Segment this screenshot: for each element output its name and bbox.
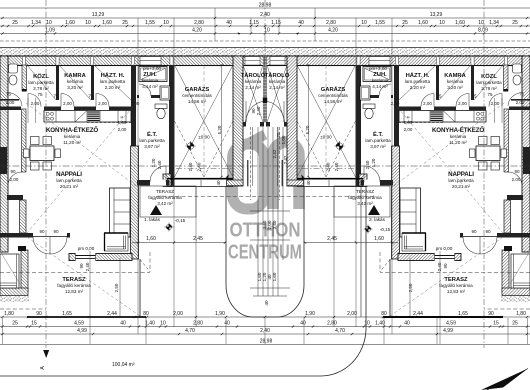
bottom ticks rowA bbox=[1, 316, 528, 318]
svg-text:4,14 m²: 4,14 m² bbox=[372, 84, 388, 89]
svg-text:2,44: 2,44 bbox=[413, 311, 423, 317]
svg-text:40: 40 bbox=[404, 321, 410, 327]
svg-text:8,09: 8,09 bbox=[478, 28, 488, 34]
fine dimension chain line bbox=[0, 25, 530, 27]
svg-text:90: 90 bbox=[36, 311, 42, 317]
passage cross ticks bbox=[250, 211, 290, 296]
svg-text:5,20: 5,20 bbox=[217, 125, 222, 134]
level marker crosses bbox=[165, 223, 174, 232]
svg-text:75: 75 bbox=[6, 92, 12, 97]
garage door lines bbox=[167, 178, 233, 180]
svg-text:15: 15 bbox=[31, 321, 37, 327]
svg-text:1,20: 1,20 bbox=[151, 158, 156, 167]
wall piece above bbox=[7, 195, 23, 200]
svg-text:1,09: 1,09 bbox=[45, 28, 55, 34]
svg-text:KONYHA-ÉTKEZŐ: KONYHA-ÉTKEZŐ bbox=[46, 126, 98, 134]
property dashed line bbox=[0, 40, 530, 42]
svg-text:10: 10 bbox=[364, 321, 370, 327]
svg-text:40: 40 bbox=[226, 20, 232, 26]
ridge dash-dot line bbox=[0, 165, 265, 167]
svg-text:4,70: 4,70 bbox=[335, 328, 345, 334]
room diagonal HAZT bbox=[94, 65, 131, 100]
svg-text:40: 40 bbox=[120, 321, 126, 327]
svg-text:KONYHA-ÉTKEZŐ: KONYHA-ÉTKEZŐ bbox=[432, 126, 484, 134]
svg-text:±0,00: ±0,00 bbox=[320, 135, 332, 140]
witness line x196 bbox=[195, 186, 197, 327]
overall width dimension line 28,98 bbox=[0, 7, 530, 9]
svg-text:1,40: 1,40 bbox=[145, 321, 155, 327]
svg-text:1,60: 1,60 bbox=[146, 236, 156, 242]
svg-text:1,00: 1,00 bbox=[281, 135, 286, 144]
svg-text:4,20: 4,20 bbox=[328, 28, 338, 34]
door arc KOZL bbox=[28, 94, 41, 107]
svg-text:pm 0,00: pm 0,00 bbox=[78, 246, 95, 251]
door arc KAMRA bbox=[61, 94, 74, 107]
svg-text:12,83 m²: 12,83 m² bbox=[65, 289, 84, 294]
svg-text:2,00: 2,00 bbox=[423, 101, 432, 106]
dishwasher diagonal bbox=[75, 111, 87, 123]
svg-text:40: 40 bbox=[216, 180, 221, 186]
wall E.T. / GARAZS bbox=[169, 65, 175, 186]
section line A dash-dot bbox=[45, 0, 47, 348]
svg-text:cementsimítás: cementsimítás bbox=[318, 93, 348, 98]
svg-text:40: 40 bbox=[264, 300, 269, 306]
garage dim line 5,20 bbox=[221, 65, 223, 177]
tick marks row3 bbox=[1, 25, 528, 27]
svg-text:75: 75 bbox=[37, 92, 43, 97]
north arrow bottom right bbox=[481, 369, 528, 390]
svg-text:2,78 m²: 2,78 m² bbox=[481, 86, 497, 91]
svg-text:1,80: 1,80 bbox=[4, 311, 14, 317]
dimension line 4,20 bbox=[0, 33, 530, 35]
toilet bbox=[155, 104, 167, 109]
svg-text:cementsimítás: cementsimítás bbox=[182, 93, 212, 98]
svg-text:1,00: 1,00 bbox=[118, 120, 127, 125]
svg-text:TERASZ: TERASZ bbox=[356, 189, 374, 194]
svg-text:pm+3,00: pm+3,00 bbox=[143, 66, 161, 71]
svg-text:NAPPALI: NAPPALI bbox=[448, 171, 474, 178]
counter front dashed bbox=[87, 122, 131, 124]
svg-text:4,99: 4,99 bbox=[443, 328, 453, 334]
svg-text:kerámia: kerámia bbox=[67, 79, 84, 84]
svg-text:TÁROLÓ: TÁROLÓ bbox=[241, 71, 266, 79]
door arc nappali left bbox=[8, 172, 22, 186]
svg-text:40: 40 bbox=[300, 321, 306, 327]
svg-text:1,65: 1,65 bbox=[62, 311, 72, 317]
svg-text:1,20: 1,20 bbox=[371, 158, 376, 167]
garage X diagonals bbox=[175, 65, 234, 177]
svg-text:2,40: 2,40 bbox=[197, 162, 202, 171]
terrace right edge line bbox=[139, 259, 141, 317]
bottom dim texts rowB bbox=[12, 321, 518, 327]
witness verticals bottom chains bbox=[3, 318, 528, 344]
svg-text:20,21 m²: 20,21 m² bbox=[60, 184, 79, 189]
svg-text:2,00: 2,00 bbox=[404, 127, 413, 132]
wall NAPPALI / E.T. upper bbox=[131, 65, 136, 146]
chairs bbox=[31, 137, 40, 145]
svg-text:2,20 m²: 2,20 m² bbox=[410, 85, 426, 90]
svg-text:90: 90 bbox=[514, 169, 520, 174]
porch side line bbox=[247, 160, 249, 186]
svg-text:1,55: 1,55 bbox=[145, 20, 155, 26]
svg-text:2,00: 2,00 bbox=[10, 177, 19, 182]
svg-text:4,59: 4,59 bbox=[446, 321, 456, 327]
svg-text:4,70: 4,70 bbox=[185, 328, 195, 334]
svg-text:kerámia: kerámia bbox=[142, 78, 159, 83]
svg-text:15: 15 bbox=[493, 321, 499, 327]
svg-text:1,60: 1,60 bbox=[374, 236, 384, 242]
svg-text:25: 25 bbox=[402, 20, 408, 26]
bedroom fragment walls bottom-left bbox=[21, 250, 28, 292]
walkway arc right bbox=[0, 186, 366, 376]
bottom dim line rowA bbox=[0, 316, 530, 318]
french door arcs bbox=[33, 237, 50, 254]
interior dim line 1,60/2,45 bbox=[132, 242, 226, 244]
wall GARAZS / TAROLO hatched bbox=[233, 56, 243, 186]
plot edge line bbox=[0, 47, 530, 49]
bottom ticks rowC bbox=[1, 333, 528, 335]
svg-text:kerámia: kerámia bbox=[64, 134, 81, 139]
svg-text:CENTRUM: CENTRUM bbox=[228, 241, 302, 264]
svg-text:2,45: 2,45 bbox=[193, 236, 203, 242]
svg-text:2,00: 2,00 bbox=[63, 101, 72, 106]
bed fragment bbox=[0, 254, 19, 288]
washbasin bbox=[160, 86, 170, 100]
svg-text:2,20 m²: 2,20 m² bbox=[105, 85, 121, 90]
left outer wall fragment bbox=[0, 56, 8, 252]
svg-text:2,40: 2,40 bbox=[85, 262, 90, 271]
svg-text:2,00: 2,00 bbox=[98, 101, 107, 106]
svg-text:10: 10 bbox=[46, 20, 52, 26]
bottom dim line rowC bbox=[0, 333, 530, 335]
door arc HAZT bbox=[96, 94, 109, 107]
svg-text:25: 25 bbox=[12, 321, 18, 327]
witness line x90 bbox=[89, 251, 91, 344]
svg-text:TERASZ: TERASZ bbox=[156, 189, 174, 194]
svg-text:75: 75 bbox=[487, 92, 493, 97]
svg-text:2,00: 2,00 bbox=[458, 101, 467, 106]
svg-text:2,14 m²: 2,14 m² bbox=[269, 85, 285, 90]
svg-text:12,83 m²: 12,83 m² bbox=[447, 289, 466, 294]
row4 arrowheads bbox=[238, 32, 241, 34]
svg-text:10: 10 bbox=[85, 20, 91, 26]
door arc toilet room bbox=[7, 93, 22, 107]
entry arrow triangle bbox=[150, 205, 162, 215]
garage door dim line bbox=[176, 168, 232, 170]
svg-text:3,42 m²: 3,42 m² bbox=[357, 201, 373, 206]
svg-text:1,34: 1,34 bbox=[31, 20, 41, 26]
svg-text:2,80: 2,80 bbox=[194, 20, 204, 26]
svg-text:É.T.: É.T. bbox=[147, 130, 157, 138]
gravel stipple band bbox=[0, 49, 530, 56]
svg-text:kerámia: kerámia bbox=[447, 79, 464, 84]
svg-text:25: 25 bbox=[512, 321, 518, 327]
interior wall KOZL/KAMRA bbox=[56, 65, 59, 100]
svg-text:lam.parketta: lam.parketta bbox=[100, 79, 126, 84]
svg-text:1,90: 1,90 bbox=[215, 311, 225, 317]
svg-text:É.T.: É.T. bbox=[373, 130, 383, 138]
dim texts row3 right bbox=[271, 20, 518, 26]
terrace roof dashed bbox=[0, 308, 46, 310]
room diagonal KOZL bbox=[27, 65, 56, 100]
svg-text:KÖZL: KÖZL bbox=[33, 73, 49, 80]
svg-text:13,29: 13,29 bbox=[430, 12, 443, 18]
dim arrowhead bbox=[226, 175, 230, 179]
svg-text:2,00: 2,00 bbox=[512, 177, 521, 182]
corner niche bench bbox=[105, 233, 129, 251]
svg-text:90: 90 bbox=[79, 263, 84, 269]
svg-text:10: 10 bbox=[361, 20, 367, 26]
svg-text:100,04 m²: 100,04 m² bbox=[112, 362, 135, 368]
garage front wall bbox=[163, 174, 171, 187]
svg-text:75: 75 bbox=[519, 92, 525, 97]
door witness lines kitchen bbox=[27, 98, 29, 123]
svg-text:1. lakás: 1. lakás bbox=[144, 217, 161, 222]
wall NAPPALI / terrace hatched lower bbox=[131, 146, 139, 259]
svg-text:2,40: 2,40 bbox=[437, 262, 442, 271]
svg-text:-0,15: -0,15 bbox=[380, 227, 391, 232]
svg-text:20,21 m²: 20,21 m² bbox=[452, 184, 471, 189]
svg-text:90: 90 bbox=[488, 311, 494, 317]
bottom dim line rowD 28,98 bbox=[0, 344, 530, 346]
svg-text:2,00: 2,00 bbox=[516, 100, 525, 105]
svg-text:1,90: 1,90 bbox=[305, 311, 315, 317]
svg-text:2,80: 2,80 bbox=[326, 20, 336, 26]
svg-text:10: 10 bbox=[163, 20, 169, 26]
witness line x138 bbox=[137, 18, 139, 334]
svg-text:28,98: 28,98 bbox=[259, 3, 272, 9]
section arrow A bbox=[43, 350, 49, 358]
svg-text:75: 75 bbox=[436, 94, 442, 99]
svg-text:4,20: 4,20 bbox=[192, 28, 202, 34]
tarolo front wall bbox=[243, 122, 264, 127]
mirrored unit geometry bbox=[264, 0, 530, 348]
svg-text:90: 90 bbox=[443, 263, 448, 269]
cooktop burners bbox=[46, 112, 49, 115]
dark cabinet left edge bbox=[0, 147, 7, 174]
svg-text:1,40: 1,40 bbox=[375, 321, 385, 327]
svg-text:1,34: 1,34 bbox=[489, 20, 499, 26]
bottom ticks rowB bbox=[1, 325, 528, 327]
svg-text:±0,00: ±0,00 bbox=[198, 135, 210, 140]
interior wall KAMRA/HAZT bbox=[91, 65, 94, 100]
svg-text:2,00: 2,00 bbox=[6, 100, 15, 105]
porch footing hatched bbox=[227, 180, 244, 186]
svg-text:2,40: 2,40 bbox=[365, 160, 370, 169]
svg-text:2,78 m²: 2,78 m² bbox=[33, 86, 49, 91]
shower tray bbox=[139, 67, 167, 82]
center party wall half bbox=[263, 56, 265, 122]
svg-text:lam.parketta: lam.parketta bbox=[365, 138, 391, 143]
tick marks row2 bbox=[1, 17, 528, 19]
svg-text:2,45: 2,45 bbox=[327, 236, 337, 242]
tarolo door arc bbox=[246, 101, 267, 122]
nappali SE wall hatched with sliding door bbox=[69, 254, 132, 261]
svg-text:2,00: 2,00 bbox=[491, 101, 500, 106]
room diagonal KAMRA bbox=[59, 65, 91, 100]
svg-text:fagyálló kerámia: fagyálló kerámia bbox=[348, 195, 382, 200]
svg-text:10: 10 bbox=[478, 20, 484, 26]
nappali dashed diagonal bbox=[26, 103, 136, 186]
bold terrace edge right bbox=[383, 316, 503, 318]
svg-text:90: 90 bbox=[10, 169, 16, 174]
svg-text:lam.parketta: lam.parketta bbox=[56, 178, 82, 183]
svg-text:KÖZL: KÖZL bbox=[481, 73, 497, 80]
eave dashed line bbox=[156, 196, 265, 198]
svg-text:2,00: 2,00 bbox=[391, 101, 400, 106]
bottom dim texts rowA bbox=[4, 311, 526, 317]
sofa bbox=[110, 188, 131, 237]
bottom dim line rowB bbox=[0, 326, 530, 328]
svg-text:40: 40 bbox=[298, 20, 304, 26]
svg-text:4,14 m²: 4,14 m² bbox=[142, 84, 158, 89]
svg-text:2,00: 2,00 bbox=[131, 101, 140, 106]
svg-text:90: 90 bbox=[39, 229, 45, 234]
svg-text:1,60: 1,60 bbox=[455, 20, 465, 26]
watermark Otthon Centrum logo OC bbox=[233, 135, 300, 210]
svg-text:2,50: 2,50 bbox=[114, 283, 119, 292]
svg-text:2,40: 2,40 bbox=[188, 162, 193, 171]
dimension line 13,29 / 2,40 bbox=[0, 17, 530, 19]
svg-text:10: 10 bbox=[160, 321, 166, 327]
svg-text:2,40: 2,40 bbox=[260, 12, 270, 18]
svg-text:1,60: 1,60 bbox=[418, 20, 428, 26]
svg-text:kerámia: kerámia bbox=[372, 78, 389, 83]
room diagonal TAROLO bbox=[243, 65, 263, 122]
wall junction breaks top bbox=[22, 57, 25, 65]
svg-text:lam.parketta: lam.parketta bbox=[405, 79, 431, 84]
svg-text:3,97 m²: 3,97 m² bbox=[370, 144, 386, 149]
svg-text:lam.parketta: lam.parketta bbox=[28, 80, 54, 85]
svg-text:HÁZT. H.: HÁZT. H. bbox=[406, 72, 430, 79]
dining table bbox=[30, 146, 54, 161]
svg-text:fagyálló kerámia: fagyálló kerámia bbox=[57, 283, 91, 288]
svg-text:40: 40 bbox=[224, 321, 230, 327]
svg-text:lam.parketta: lam.parketta bbox=[139, 138, 165, 143]
bottom dim texts rowC bbox=[77, 328, 453, 334]
nappali left wall fragment bbox=[20, 200, 27, 233]
svg-text:2,42: 2,42 bbox=[272, 149, 277, 158]
svg-text:2,40: 2,40 bbox=[334, 162, 339, 171]
nappali front wall with french doors bbox=[0, 233, 33, 238]
svg-text:3,97 m²: 3,97 m² bbox=[144, 144, 160, 149]
entry door arc bbox=[150, 166, 166, 182]
svg-text:3,40: 3,40 bbox=[272, 220, 277, 229]
svg-text:1,00: 1,00 bbox=[404, 120, 413, 125]
terrace dashed diagonals bbox=[27, 237, 140, 316]
svg-text:HÁZT. H.: HÁZT. H. bbox=[101, 72, 125, 79]
wall under KOZL KAMRA HAZT bbox=[0, 107, 21, 111]
svg-text:kerámia: kerámia bbox=[245, 79, 262, 84]
svg-text:2,44: 2,44 bbox=[107, 311, 117, 317]
svg-text:90: 90 bbox=[471, 229, 477, 234]
svg-text:1,60: 1,60 bbox=[65, 20, 75, 26]
svg-text:80: 80 bbox=[143, 311, 149, 317]
interior wall KOZL left hatched bbox=[22, 65, 27, 91]
center passage verticals bbox=[258, 127, 283, 296]
window above TAROLO bbox=[245, 57, 260, 66]
svg-text:1,55: 1,55 bbox=[375, 20, 385, 26]
svg-text:lam.parketta: lam.parketta bbox=[476, 80, 502, 85]
svg-text:lam.parketta: lam.parketta bbox=[448, 178, 474, 183]
svg-text:2,00: 2,00 bbox=[118, 127, 127, 132]
toilet room south wall line bbox=[0, 99, 19, 101]
door jamb block bbox=[18, 246, 26, 251]
svg-text:2,80: 2,80 bbox=[327, 321, 337, 327]
roof overhang dashed bbox=[0, 272, 150, 274]
kitchen counter bbox=[44, 111, 131, 123]
svg-text:fagyálló kerámia: fagyálló kerámia bbox=[148, 195, 182, 200]
svg-text:3,20 m²: 3,20 m² bbox=[447, 85, 463, 90]
svg-text:2,80: 2,80 bbox=[193, 321, 203, 327]
svg-text:10: 10 bbox=[439, 20, 445, 26]
svg-text:GARÁZS: GARÁZS bbox=[185, 86, 210, 93]
svg-text:2,00: 2,00 bbox=[173, 311, 183, 317]
dim texts row3 left bbox=[12, 20, 259, 26]
svg-text:11,20 m²: 11,20 m² bbox=[63, 140, 81, 145]
svg-text:NAPPALI: NAPPALI bbox=[56, 171, 82, 178]
svg-text:1,80: 1,80 bbox=[516, 311, 526, 317]
svg-text:14,56 m²: 14,56 m² bbox=[188, 99, 207, 104]
E.T. front wall and entry bbox=[137, 180, 170, 186]
svg-text:fagyálló kerámia: fagyálló kerámia bbox=[439, 283, 473, 288]
svg-text:75: 75 bbox=[53, 94, 59, 99]
svg-text:pm+3,00: pm+3,00 bbox=[369, 66, 387, 71]
svg-text:25: 25 bbox=[512, 20, 518, 26]
left edge bathroom fixtures bbox=[9, 64, 18, 73]
tick marks row4 bbox=[1, 32, 528, 34]
door arc ZUH bbox=[139, 84, 151, 96]
svg-text:90: 90 bbox=[485, 229, 491, 234]
svg-text:2,00: 2,00 bbox=[31, 101, 40, 106]
svg-text:2. lakás: 2. lakás bbox=[369, 217, 386, 222]
dim line 2,50 vertical bbox=[119, 258, 121, 317]
svg-text:5,20: 5,20 bbox=[305, 125, 310, 134]
door jamb block bbox=[263, 98, 266, 104]
wall under ZUH bbox=[137, 95, 169, 98]
svg-text:1,60: 1,60 bbox=[272, 272, 277, 281]
terrace front bold edge bbox=[27, 316, 146, 318]
svg-text:28,98: 28,98 bbox=[260, 339, 273, 345]
svg-text:-0,15: -0,15 bbox=[175, 218, 186, 223]
kitchen left wall hatched bbox=[22, 109, 27, 172]
svg-text:4,99: 4,99 bbox=[77, 328, 87, 334]
svg-text:4,59: 4,59 bbox=[74, 321, 84, 327]
svg-text:2,40: 2,40 bbox=[326, 162, 331, 171]
svg-text:2,42: 2,42 bbox=[283, 155, 288, 164]
svg-text:1,15: 1,15 bbox=[249, 20, 259, 26]
svg-text:2,40: 2,40 bbox=[157, 160, 162, 169]
driveway stadium outline bbox=[226, 186, 304, 317]
svg-text:3,20 m²: 3,20 m² bbox=[67, 85, 83, 90]
svg-text:2,50: 2,50 bbox=[408, 283, 413, 292]
svg-text:TÁROLÓ: TÁROLÓ bbox=[265, 71, 290, 79]
svg-text:14,56 m²: 14,56 m² bbox=[324, 99, 343, 104]
svg-text:2,14 m²: 2,14 m² bbox=[245, 85, 261, 90]
top exterior wall left half bbox=[0, 56, 265, 66]
svg-text:90: 90 bbox=[53, 229, 59, 234]
svg-text:pm 0,00: pm 0,00 bbox=[436, 246, 453, 251]
svg-text:1,65: 1,65 bbox=[458, 311, 468, 317]
stipple strip below wall bbox=[0, 297, 29, 303]
window above ZUH bbox=[140, 57, 161, 66]
nappali dashed diagonal 2 bbox=[27, 103, 136, 233]
svg-text:11,20 m²: 11,20 m² bbox=[449, 140, 467, 145]
svg-text:kerámia: kerámia bbox=[269, 79, 286, 84]
svg-text:80: 80 bbox=[381, 311, 387, 317]
witness line x174 bbox=[173, 18, 175, 327]
garage dashed diagonals bbox=[175, 121, 205, 177]
